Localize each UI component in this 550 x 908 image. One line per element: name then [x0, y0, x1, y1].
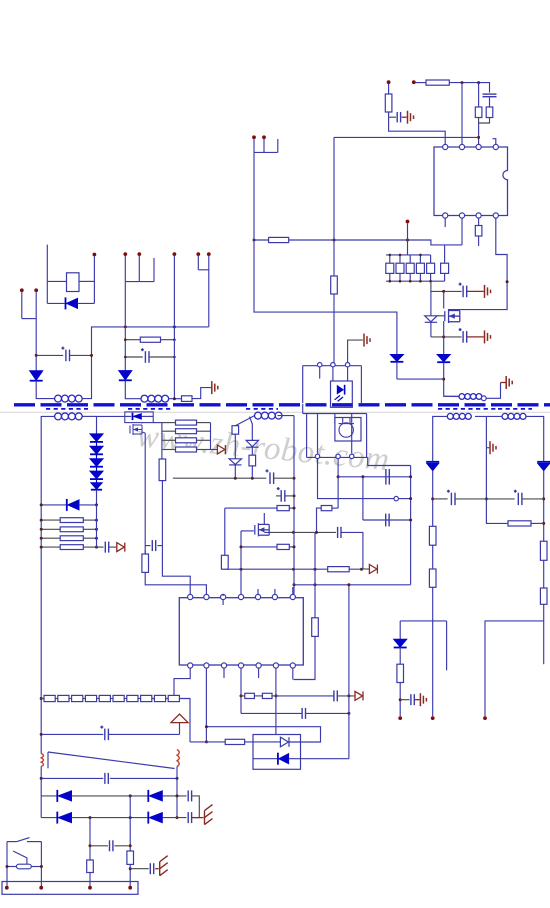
wire Q2 source link: [264, 531, 269, 533]
inductor T2 secondary: [255, 412, 283, 419]
wire R53 down: [89, 873, 91, 887]
pin 1 of U3 top: [188, 594, 193, 599]
wire row1 a: [41, 795, 57, 797]
capacitor C8: [266, 469, 274, 484]
wire D16 left: [41, 504, 66, 506]
pin 2 of U3 top: [204, 594, 209, 599]
wire connector pin2: [263, 139, 265, 152]
node VCC1 dot: [387, 80, 391, 84]
wire C12 right: [306, 712, 349, 714]
wire C20 left: [41, 777, 103, 779]
twin diode D7 box: [253, 735, 301, 770]
wire C21 link: [192, 796, 200, 818]
terminal strip X1: [2, 882, 138, 895]
wire C22 to gnd: [192, 817, 204, 819]
resistor R30: [176, 420, 197, 425]
junction dots aux row: [234, 477, 254, 480]
junction dots on feed bus: [253, 239, 410, 242]
junction dots bank rails: [389, 254, 432, 283]
wire Q4 source: [142, 432, 145, 433]
wire R18 right: [289, 546, 293, 548]
junction dots out nets: [431, 497, 545, 525]
junction dot out3: [399, 698, 402, 701]
resistor R17: [277, 506, 289, 511]
wire R27 right: [83, 528, 96, 530]
wire SW1 left post: [6, 842, 8, 886]
wire R9 bottom stub: [409, 273, 411, 281]
wire A3 to ground: [486, 383, 500, 399]
resistor R5: [475, 226, 482, 237]
resistor R47: [99, 695, 110, 701]
pin 10 of U3 bottom: [221, 663, 226, 668]
resistor R25: [182, 396, 193, 402]
wire chain lead: [41, 698, 44, 700]
pin 4 of U3 top: [238, 594, 243, 599]
wire F1 right: [31, 866, 41, 868]
wire out row R1: [486, 498, 514, 500]
wire P4P5 bar: [22, 318, 36, 320]
wire D3 bottom: [396, 362, 398, 379]
wire C2 to R4: [489, 98, 491, 108]
wire chain link 6: [124, 698, 127, 700]
wire opto right rail: [360, 366, 362, 403]
junction dot row1: [129, 794, 132, 797]
optocoupler U2: [331, 381, 353, 407]
wire into D7: [245, 741, 281, 743]
wire d13-d14: [96, 467, 98, 471]
transformer core thin dash segment: [46, 408, 88, 410]
wire R42 down: [399, 683, 401, 717]
wire R37 right: [531, 522, 544, 524]
pin 9 of U3 bottom: [204, 663, 209, 668]
resistor R46: [85, 695, 96, 701]
pin P1 dot: [252, 135, 256, 139]
wire R14 left drop: [317, 508, 322, 532]
junction dot pin2 net: [337, 475, 340, 478]
wire d14-d15: [96, 479, 98, 483]
ground G9: [205, 805, 213, 825]
resistor R36: [249, 455, 256, 466]
wire ref bus horizontal: [303, 413, 367, 415]
wire R41 down: [485, 604, 544, 716]
resistor R3: [475, 107, 482, 118]
junction dots rect col: [95, 503, 98, 548]
wire T3 right: [526, 416, 544, 461]
resistor R14: [321, 506, 332, 511]
wire to TP4: [211, 449, 218, 451]
diode D9: [30, 371, 43, 381]
wire row1 c: [162, 795, 186, 797]
wire pin3 ground branch: [348, 340, 363, 355]
wire lower comp row: [241, 712, 302, 714]
pin 2 of U1 top: [459, 144, 464, 149]
wire row1 to mosfet: [443, 291, 445, 308]
wire C9 right: [285, 495, 294, 497]
capacitor C19: [100, 726, 108, 741]
wire R14 right up: [332, 507, 338, 509]
node VIN dot: [412, 80, 416, 84]
diode D25: [57, 812, 71, 824]
pin 13 of U3 bottom: [273, 663, 278, 668]
wire R26 left: [41, 519, 60, 521]
wire D20 down: [432, 471, 434, 527]
wire opto top bar: [303, 365, 362, 367]
switch SW1 actuator: [13, 851, 27, 864]
ic U3: [179, 598, 303, 665]
resistor R48: [113, 695, 124, 701]
pin 12 of U3 bottom: [256, 663, 261, 668]
wire pins bar: [307, 456, 368, 458]
wire R17 right: [289, 507, 293, 509]
junction dot on pin9 drop: [205, 725, 208, 728]
wire bank to filter row1: [431, 281, 462, 291]
wire ref drop a: [306, 414, 308, 458]
wire opto pin3 lead: [347, 355, 349, 363]
capacitor C14: [141, 348, 149, 363]
capacitor C1: [397, 112, 400, 122]
wire C11 right: [337, 695, 354, 697]
wire out row: [97, 546, 104, 548]
wire T1B right: [82, 415, 96, 417]
wire R20 joints: [144, 541, 146, 554]
wire C15 to TP: [109, 546, 117, 548]
wire pin9 to R23: [190, 741, 225, 743]
wire R9 top stub: [409, 255, 411, 263]
wire osc row: [162, 481, 190, 595]
mosfet Q1: [445, 309, 460, 323]
diode D21: [537, 462, 550, 471]
pin 5 of U1 bottom: [443, 213, 448, 218]
wire d15 down: [96, 490, 98, 505]
wire R3 riser: [478, 83, 480, 107]
capacitor C3: [459, 283, 467, 298]
wire gnd lead: [501, 382, 506, 384]
wire R21 left: [241, 695, 245, 697]
wire R27 left: [41, 528, 60, 530]
test point TP3: [117, 543, 125, 552]
wire chain link 2: [69, 698, 72, 700]
degauss coil end R: [177, 750, 179, 767]
pin P2 dot: [262, 135, 266, 139]
ground G10: [160, 856, 168, 876]
wire D17 right: [142, 415, 154, 417]
diode D2: [437, 355, 450, 363]
wire row1 b: [72, 795, 149, 797]
wire C19 right: [108, 733, 179, 735]
capacitor C7: [338, 527, 341, 538]
wire R19 to pin14: [294, 636, 316, 679]
wire R2row left: [225, 507, 277, 509]
wire to test arrow: [362, 568, 369, 570]
terminal dot 2: [39, 886, 43, 890]
wire chain link 9: [166, 698, 169, 700]
resistor R31: [176, 429, 197, 434]
wire ref drop e: [366, 414, 368, 458]
pin 7 of U1 bottom: [476, 213, 481, 218]
resistor R29: [60, 545, 83, 550]
wire R25 to ground: [192, 388, 211, 399]
pin P7 dot: [137, 252, 141, 256]
wire VCC1 stub: [388, 84, 390, 94]
resistor R43: [44, 695, 55, 701]
resistor R24: [140, 337, 160, 342]
wire neutral column: [89, 818, 91, 860]
ground G7: [420, 693, 426, 706]
wire col C: [173, 256, 175, 399]
capacitor C5: [386, 469, 389, 485]
wire R12 top stub: [444, 245, 446, 263]
wire R30 left: [162, 422, 176, 424]
wire pin2 drop: [337, 459, 339, 509]
wire secondary ref bus: [302, 404, 304, 414]
wire R38-R39: [432, 545, 434, 569]
diode D8: [66, 297, 78, 309]
pin P4 dot: [20, 288, 24, 292]
resistor R16: [221, 555, 228, 569]
junction dots switch: [6, 865, 43, 868]
resistor R27: [60, 527, 83, 532]
wire ct row: [144, 433, 146, 541]
wire R10 top stub: [419, 255, 421, 263]
wire diag post: [47, 752, 49, 768]
zener D18: [229, 459, 241, 465]
wire K1 right: [79, 280, 94, 282]
node out1 dot: [431, 716, 435, 720]
resistor R21: [245, 693, 255, 698]
wire pin7 stub: [292, 587, 294, 594]
wire F1 left: [7, 866, 17, 868]
wire D9 to coil: [36, 381, 54, 399]
wire d11-d12: [96, 442, 98, 446]
fuse F1: [17, 864, 32, 869]
resistor R32: [176, 438, 197, 443]
wire R31 right: [197, 430, 211, 432]
resistor R40: [540, 541, 547, 560]
wire rail lower: [40, 767, 42, 818]
junction dot drop: [347, 583, 350, 586]
wire P9P10 bar: [198, 269, 209, 271]
resistor R44: [58, 695, 69, 701]
led inside U2: [335, 385, 345, 402]
wire C3 to ground: [467, 290, 484, 292]
junction dot row2: [442, 335, 445, 338]
wire R32 left: [162, 439, 176, 441]
wire P8a stub: [153, 258, 155, 282]
diode D26: [148, 812, 162, 824]
wire Q2 drain stub: [263, 513, 265, 525]
wire chain link 4: [97, 698, 100, 700]
wire R5 bottom stub: [478, 236, 480, 246]
wire zener column upper: [430, 291, 432, 315]
junction dot row1 deg: [176, 794, 179, 797]
wire stub right: [543, 621, 545, 664]
wire C18 left: [400, 699, 409, 701]
wire gate link: [437, 315, 445, 317]
wire feedback drop to D3: [254, 152, 397, 354]
wire P4 stub: [21, 292, 23, 318]
transformer core thin dash segment: [128, 408, 172, 410]
wire R36 down: [251, 466, 253, 478]
junction dots row2: [89, 816, 179, 819]
wire R24 left: [125, 339, 140, 341]
wire R32 right: [197, 439, 211, 441]
diode D12: [90, 446, 103, 454]
pin 4 of U1 top: [493, 144, 498, 149]
resistor R20: [142, 554, 149, 572]
capacitor C6: [386, 514, 389, 527]
wire pin6 stub: [274, 589, 276, 594]
wire D22 column: [399, 621, 401, 639]
pin sec 1: [315, 454, 319, 458]
ground G3: [485, 330, 491, 343]
wire R12 bottom stub: [444, 273, 446, 281]
wire T3 center tap: [486, 416, 508, 523]
resistor R7: [386, 263, 394, 273]
wire C1 to ground: [402, 116, 407, 118]
junction dots div row: [292, 531, 318, 534]
resistor R23: [225, 739, 244, 744]
node out2 dot: [483, 716, 487, 720]
wire chain out: [179, 699, 190, 742]
wire aux supply row: [173, 477, 266, 479]
pin sec 2: [336, 454, 340, 458]
capacitor C9: [277, 487, 285, 502]
pin 8 of U1 bottom: [493, 213, 498, 218]
pin sec 3: [350, 454, 354, 458]
wire C4 to ground: [467, 336, 484, 338]
pin P5 dot: [34, 288, 38, 292]
wire jumper to riser: [398, 498, 410, 500]
wire mosfet source drop: [443, 321, 445, 355]
thermistor RT1 arrow: [171, 714, 188, 723]
wire pin10 stub: [222, 600, 224, 605]
wire row2 c: [162, 817, 186, 819]
junction dot pin13: [275, 694, 278, 697]
wire row2 a: [41, 817, 57, 819]
wire C24 left: [130, 868, 149, 870]
wire opto pin3 into box: [347, 367, 349, 381]
pin P3 dot: [93, 253, 97, 257]
ground G1: [408, 111, 414, 124]
inductor T1 primary A: [55, 395, 83, 402]
wire pin9 drop: [205, 668, 207, 742]
wire bank bottom rail: [386, 280, 445, 282]
wire T2B right: [278, 415, 295, 417]
resistor R8: [396, 263, 404, 273]
diode D15: [91, 483, 102, 490]
wire pin12 stub: [258, 668, 260, 678]
terminal dot 1: [5, 886, 9, 890]
wire bar right to fb node: [368, 457, 411, 465]
resistor R49: [127, 695, 138, 701]
wire cap C10 left: [145, 545, 150, 547]
capacitor C4: [459, 328, 467, 343]
pin P8 dot: [173, 252, 177, 256]
wire pin5 stub: [257, 589, 259, 594]
junction dot neutral: [89, 844, 92, 847]
wire comp row1: [338, 476, 411, 478]
wire T2B left diag: [235, 416, 254, 426]
capacitor C13: [61, 347, 69, 362]
capacitor C10: [152, 540, 155, 551]
junction dot comp row1: [361, 475, 364, 478]
wire pin8 route: [174, 668, 190, 696]
wire T2B tap: [250, 417, 253, 441]
diode D3: [390, 355, 403, 362]
pin 8 of U3 bottom: [188, 663, 193, 668]
wire R24 right: [161, 339, 175, 341]
wire ref drop d: [351, 414, 353, 454]
wire D7b right: [289, 758, 349, 760]
ground G2: [485, 285, 491, 298]
resistor R12: [441, 263, 449, 273]
wire R40-R41: [543, 560, 545, 588]
pin A3 end: [481, 396, 486, 401]
wire pin4 stub: [493, 139, 496, 145]
resistor R53: [87, 860, 94, 873]
wire ecap row A: [36, 354, 63, 356]
capacitor C21: [188, 790, 191, 801]
wire sync top: [97, 415, 125, 417]
junction dot deg: [176, 777, 179, 780]
wire comp mid column: [362, 531, 364, 533]
wire D10 to coil: [125, 380, 141, 398]
wire A3 lead: [444, 395, 459, 397]
wire chain link 7: [138, 698, 141, 700]
resistor R38: [429, 526, 436, 545]
wire ecap row B: [125, 356, 143, 358]
wire ref drop b: [317, 414, 319, 454]
pin 1 of U1 top: [443, 144, 448, 149]
wire R30 right: [197, 422, 211, 424]
wire R22 right: [272, 695, 276, 697]
wire C23 right: [114, 845, 130, 847]
wire C10 right: [157, 545, 162, 547]
wire R7 bottom stub: [389, 273, 391, 281]
wire ct row lower: [145, 550, 206, 594]
capacitor C24: [150, 863, 153, 874]
wire T2A to node: [169, 398, 182, 400]
junction dot pin9 net: [205, 740, 208, 743]
pin 11 of U3 bottom: [238, 663, 243, 668]
wire R1 bottom to pin1 of U1: [389, 112, 446, 144]
wire D2 to snubber node: [444, 362, 459, 396]
wire D8 left: [47, 302, 65, 304]
junction dot snubber: [442, 378, 445, 381]
test point TP2: [355, 691, 363, 700]
wire R7 top stub: [389, 255, 391, 263]
wire D8 right: [78, 302, 95, 304]
wire C19 left: [41, 733, 103, 735]
wire D7b left: [253, 758, 277, 760]
wire C17 right: [522, 498, 544, 500]
junction dot on drain rail: [506, 280, 509, 283]
wire P6 stub: [124, 256, 126, 282]
wire vcc2 column: [293, 416, 295, 594]
ground G4: [364, 334, 370, 347]
resistor R26: [60, 518, 83, 523]
wire sync out: [153, 422, 162, 424]
wire P6-P8 bar: [125, 281, 154, 283]
wire feedback riser: [410, 466, 412, 585]
wire C16 right: [455, 498, 486, 500]
junction dots left rail: [40, 503, 43, 780]
switch SW1: [7, 838, 41, 842]
degaussing coil diagonal: [48, 752, 175, 769]
capacitor C18: [411, 694, 414, 705]
test point TP4: [217, 445, 225, 454]
wire P10 stub: [208, 256, 210, 270]
